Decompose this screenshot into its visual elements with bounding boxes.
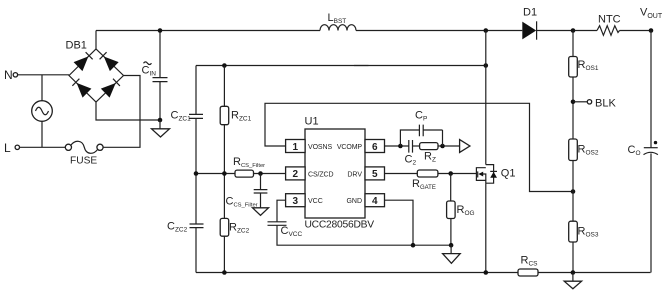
- wire DRV to RGATE: [385, 173, 418, 175]
- svg-text:BLK: BLK: [595, 98, 616, 110]
- svg-text:1: 1: [293, 142, 299, 153]
- node BLK: [571, 98, 617, 110]
- wire CVCC to signal ground run: [277, 225, 451, 245]
- resistor RCS: [518, 255, 538, 277]
- capacitor CZC2: [167, 221, 204, 273]
- capacitor CZC1: [171, 66, 204, 225]
- diode D1: [522, 6, 537, 39]
- wire RCS_Filter to pin2: [254, 173, 286, 175]
- wire rail inductor to D1: [356, 30, 522, 32]
- capacitor CCS_Filter: [226, 174, 268, 209]
- node junction CCS_Filter top: [258, 171, 263, 176]
- ground below CIN: [152, 120, 170, 137]
- svg-text:CZC2: CZC2: [167, 221, 188, 234]
- ground signal: [443, 245, 461, 263]
- bridge rectifier DB1: [66, 40, 124, 103]
- net pointer COMP: [460, 140, 470, 153]
- wire L to fuse: [20, 146, 66, 148]
- resistor ROG: [447, 174, 475, 246]
- AC source V1: [32, 75, 53, 148]
- capacitor CO: [628, 31, 658, 273]
- inductor LBST: [320, 12, 356, 31]
- svg-text:4: 4: [372, 196, 378, 207]
- capacitor C2: [405, 140, 417, 167]
- pin 3: [286, 194, 306, 207]
- wire GND pin4 down: [385, 200, 414, 245]
- fuse FUSE: [65, 141, 103, 166]
- transistor Q1: [476, 31, 515, 273]
- node junction RZC row: [222, 171, 227, 176]
- node junction CIN bottom: [158, 118, 163, 123]
- node junction ROG top: [448, 171, 453, 176]
- wire RGATE to Q1 gate: [438, 173, 477, 175]
- svg-text:RCS: RCS: [521, 255, 539, 268]
- wire VCC pin3 to CVCC: [277, 200, 286, 222]
- node junction ROS3 bottom: [571, 270, 576, 275]
- pin 6: [365, 140, 385, 153]
- wire N to bridge left: [18, 74, 69, 76]
- svg-text:2: 2: [293, 169, 299, 180]
- resistor ROS2: [569, 139, 599, 221]
- resistor RCS_Filter: [233, 156, 265, 177]
- wire NTC to VOUT: [620, 30, 652, 32]
- svg-text:CIN: CIN: [142, 65, 157, 78]
- node junction ROS1 top: [571, 28, 576, 33]
- wire D1 to NTC: [537, 30, 597, 32]
- svg-text:ROS2: ROS2: [578, 144, 599, 157]
- node VOUT: [649, 28, 654, 33]
- svg-text:VOUT: VOUT: [640, 7, 663, 21]
- thermistor NTC: [597, 14, 621, 36]
- node junction Q1 source bottom: [484, 270, 489, 275]
- resistor ROS1: [569, 31, 599, 140]
- svg-text:DRV: DRV: [347, 171, 362, 178]
- node junction RZC1 top: [222, 63, 227, 68]
- diode DB1 bottom-right: [101, 78, 121, 98]
- wire bottom rail: [196, 272, 518, 274]
- node junction VCOMP: [398, 144, 403, 149]
- svg-text:6: 6: [372, 142, 378, 153]
- node N terminal: [13, 73, 17, 77]
- ground power: [564, 273, 581, 289]
- svg-text:RZC1: RZC1: [231, 110, 252, 123]
- wire fuse to bridge right vertex: [103, 76, 140, 148]
- pin 4: [365, 194, 385, 207]
- svg-text:GND: GND: [346, 198, 362, 205]
- svg-text:RGATE: RGATE: [412, 178, 436, 191]
- svg-text:D1: D1: [523, 6, 537, 18]
- resistor RGATE: [412, 170, 438, 191]
- svg-text:NTC: NTC: [598, 14, 621, 26]
- svg-text:FUSE: FUSE: [70, 156, 97, 167]
- diode DB1 top-left: [74, 51, 94, 71]
- svg-text:3: 3: [293, 196, 299, 207]
- pin 2: [286, 167, 306, 180]
- svg-text:CVCC: CVCC: [281, 225, 303, 238]
- node junction ROG bottom: [449, 243, 454, 248]
- capacitor CIN: [142, 31, 168, 121]
- svg-text:VCC: VCC: [308, 198, 323, 205]
- wire VOSNS feedback loop: [265, 103, 573, 191]
- node L terminal: [15, 145, 19, 149]
- svg-text:ROG: ROG: [457, 204, 475, 217]
- svg-text:DB1: DB1: [66, 40, 87, 52]
- svg-text:CO: CO: [628, 144, 641, 157]
- svg-text:RCS_Filter: RCS_Filter: [233, 156, 265, 169]
- resistor RZ: [420, 143, 438, 164]
- op-amp U1 body: [286, 116, 385, 231]
- wire bridge bottom to ground node: [96, 102, 160, 120]
- svg-text:ROS3: ROS3: [578, 226, 599, 239]
- svg-text:RZC2: RZC2: [229, 222, 250, 235]
- svg-text:CP: CP: [415, 110, 427, 123]
- resistor RZC2: [220, 218, 249, 272]
- svg-text:VOSNS: VOSNS: [308, 144, 332, 151]
- wire ZC rail: [196, 65, 486, 67]
- node junction pin4 gnd: [411, 243, 416, 248]
- diode DB1 top-right: [99, 51, 119, 71]
- diode DB1 bottom-left: [71, 78, 91, 98]
- node junction comp net right: [440, 144, 445, 149]
- resistor ROS3: [569, 221, 599, 272]
- svg-text:VCOMP: VCOMP: [337, 144, 363, 151]
- pin 1: [286, 140, 306, 153]
- svg-text:CS/ZCD: CS/ZCD: [308, 171, 334, 178]
- node junction RZC2 bottom: [222, 270, 227, 275]
- wire VCOMP to C2: [385, 145, 409, 147]
- resistor RZC1: [220, 66, 251, 219]
- svg-text:ROS1: ROS1: [578, 59, 599, 72]
- svg-text:CZC1: CZC1: [171, 110, 192, 123]
- node junction CIN top: [158, 28, 163, 33]
- svg-text:C2: C2: [405, 154, 417, 167]
- svg-text:L: L: [4, 141, 11, 155]
- node junction drain column at ZC rail: [484, 63, 489, 68]
- node junction ROS2/ROS3: [571, 189, 576, 194]
- svg-text:UCC28056DBV: UCC28056DBV: [305, 220, 375, 231]
- svg-text:5: 5: [372, 169, 378, 180]
- wire bridge top to rail: [95, 31, 97, 50]
- capacitor CP branch: [400, 110, 442, 147]
- pin 5: [365, 167, 385, 180]
- ground below CCS_Filter: [253, 193, 269, 215]
- svg-text:LBST: LBST: [328, 12, 347, 25]
- wire RZ to node: [438, 145, 460, 147]
- wire top rail left: [96, 30, 320, 32]
- svg-text:Q1: Q1: [501, 168, 516, 180]
- wire CS/ZCD row: [196, 173, 235, 175]
- svg-text:U1: U1: [305, 116, 319, 128]
- svg-text:CCS_Filter: CCS_Filter: [226, 196, 258, 209]
- wire C2 to RZ: [413, 145, 420, 147]
- node junction CZC row: [194, 171, 199, 176]
- svg-text:RZ: RZ: [424, 151, 436, 164]
- node junction at D1 anode column: [484, 28, 489, 33]
- capacitor CVCC: [268, 222, 303, 238]
- svg-text:N: N: [4, 68, 13, 82]
